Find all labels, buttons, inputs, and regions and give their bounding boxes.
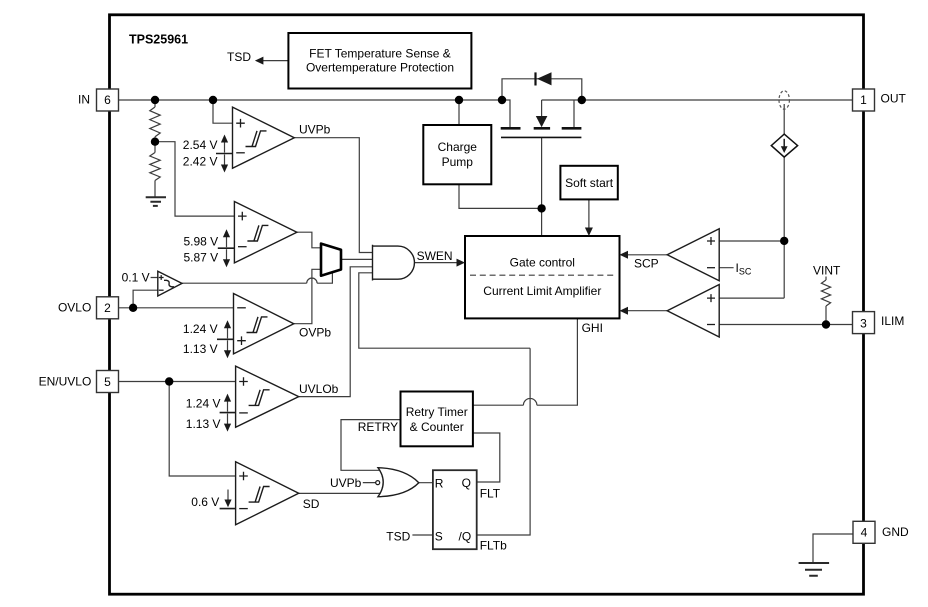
svg-text:5: 5 — [104, 375, 111, 389]
svg-text:SWEN: SWEN — [417, 249, 453, 263]
svg-text:FLT: FLT — [480, 487, 501, 501]
svg-text:5.98 V: 5.98 V — [183, 234, 218, 248]
svg-text:Overtemperature Protection: Overtemperature Protection — [306, 61, 454, 75]
svg-text:OVPb: OVPb — [299, 326, 331, 340]
svg-text:TPS25961: TPS25961 — [129, 33, 188, 47]
svg-text:S: S — [435, 530, 443, 544]
svg-text:Q: Q — [462, 476, 471, 490]
svg-text:4: 4 — [861, 526, 868, 540]
svg-text:TSD: TSD — [386, 530, 410, 544]
svg-text:1.24 V: 1.24 V — [183, 322, 218, 336]
svg-text:2.42 V: 2.42 V — [183, 155, 218, 169]
svg-text:Charge: Charge — [438, 140, 478, 154]
svg-text:SCP: SCP — [634, 257, 659, 271]
svg-text:EN/UVLO: EN/UVLO — [39, 375, 92, 389]
svg-text:IN: IN — [78, 92, 90, 106]
svg-text:& Counter: & Counter — [410, 420, 464, 434]
svg-text:Current Limit Amplifier: Current Limit Amplifier — [483, 284, 601, 298]
svg-text:Pump: Pump — [442, 155, 474, 169]
svg-text:UVPb: UVPb — [299, 123, 331, 137]
svg-text:OUT: OUT — [881, 92, 907, 106]
svg-text:UVPb: UVPb — [330, 476, 362, 490]
svg-text:TSD: TSD — [227, 50, 251, 64]
svg-text:/Q: /Q — [459, 530, 472, 544]
svg-text:Gate control: Gate control — [510, 256, 575, 270]
svg-text:VINT: VINT — [813, 264, 841, 278]
svg-text:0.6 V: 0.6 V — [191, 495, 219, 509]
svg-text:RETRY: RETRY — [358, 420, 398, 434]
svg-text:6: 6 — [104, 93, 111, 107]
svg-text:GND: GND — [882, 525, 909, 539]
svg-text:R: R — [435, 477, 444, 491]
svg-text:1: 1 — [860, 93, 867, 107]
svg-text:Soft start: Soft start — [565, 176, 614, 190]
svg-text:2: 2 — [104, 301, 111, 315]
svg-text:Retry Timer: Retry Timer — [406, 405, 468, 419]
svg-text:FET Temperature Sense &: FET Temperature Sense & — [309, 47, 451, 61]
svg-text:ILIM: ILIM — [881, 314, 904, 328]
svg-text:GHI: GHI — [582, 321, 603, 335]
svg-text:0.1 V: 0.1 V — [122, 271, 150, 285]
svg-text:FLTb: FLTb — [480, 539, 507, 553]
svg-text:UVLOb: UVLOb — [299, 382, 339, 396]
svg-text:1.13 V: 1.13 V — [186, 417, 221, 431]
svg-text:1.24 V: 1.24 V — [186, 396, 221, 410]
svg-text:OVLO: OVLO — [58, 301, 91, 315]
svg-text:SD: SD — [303, 497, 320, 511]
svg-text:1.13 V: 1.13 V — [183, 342, 218, 356]
svg-text:3: 3 — [860, 316, 867, 330]
svg-text:2.54 V: 2.54 V — [183, 138, 218, 152]
svg-text:5.87 V: 5.87 V — [183, 251, 218, 265]
